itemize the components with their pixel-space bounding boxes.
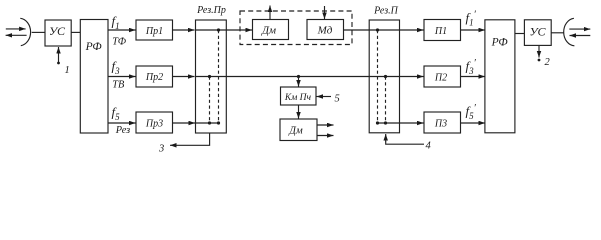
converter Пр3 (136, 112, 173, 133)
junction dot f3 drop (297, 75, 300, 78)
reserve switch Рез.П (369, 6, 399, 133)
modulator Мд (307, 20, 344, 40)
wire Рез.П to П2 (400, 76, 424, 78)
channel equipment dashed box (240, 11, 352, 45)
svg-text:3: 3 (158, 144, 164, 155)
wire УС to antenna (right) (551, 32, 563, 34)
wire П1 to РФ (461, 29, 486, 31)
svg-text:Дм: Дм (288, 126, 303, 137)
wire РФ to УС (right) (515, 33, 525, 35)
svg-text:П3: П3 (434, 118, 447, 129)
svg-text:2: 2 (545, 57, 551, 68)
dashed switch link f3-f5 (209, 77, 211, 124)
svg-text:Мд: Мд (317, 25, 333, 37)
svg-text:Пр1: Пр1 (145, 26, 163, 37)
arrow up from Дм (269, 6, 271, 20)
wire Пр1 to Рез.Пр (173, 29, 195, 31)
arrow input 5 into Км Пч (317, 94, 340, 105)
combiner Км Пч (281, 87, 317, 105)
filter РФ (left) (80, 20, 108, 134)
wire Рез.П to П3 (400, 122, 424, 124)
svg-text:5: 5 (335, 94, 340, 105)
svg-text:ТВ: ТВ (112, 80, 125, 91)
svg-text:Пр3: Пр3 (145, 118, 163, 129)
svg-text:УС: УС (49, 24, 66, 38)
reserve switch Рез.Пр (196, 5, 227, 133)
converter Пр1 (136, 20, 173, 40)
svg-text:4: 4 (426, 141, 432, 152)
transmitter П2 (424, 66, 461, 87)
wire row f1 through Рез.Пр (196, 29, 227, 31)
wire Пр2 to Рез.Пр (173, 76, 195, 78)
svg-text:П1: П1 (434, 26, 447, 37)
arrow output 2 from УС (538, 45, 551, 68)
wire antenna to УС (32, 31, 46, 33)
wire РФ to Пр3 (108, 122, 136, 124)
svg-text:Рез: Рез (115, 125, 130, 136)
transmitter П1 (424, 20, 461, 41)
wire П2 to РФ (461, 76, 486, 78)
svg-text:Км Пч: Км Пч (284, 93, 312, 103)
wire input 4 into Рез.П bottom (386, 134, 432, 152)
dashed switch link f1'-f5' (377, 30, 379, 123)
transmitter П3 (424, 112, 461, 133)
svg-text:РФ: РФ (85, 41, 102, 53)
arrow input 1 into УС (57, 47, 70, 76)
svg-text:УС: УС (529, 25, 546, 39)
svg-text:Пр2: Пр2 (145, 72, 163, 83)
wire f3 Рез.Пр to Рез.П (226, 76, 369, 78)
filter РФ (right) (485, 20, 515, 133)
wire П3 to РФ (461, 122, 486, 124)
wire Рез.П to П1 (400, 29, 424, 31)
wire row f1' through Рез.П (369, 29, 399, 31)
left antenna (6, 18, 31, 45)
svg-text:Дм: Дм (261, 25, 276, 37)
wire Мд to Рез.П (344, 29, 370, 31)
wire РФ to Пр1 (108, 29, 136, 31)
arrow down into Мд (324, 6, 326, 19)
svg-text:РФ: РФ (491, 37, 508, 49)
demodulator Дм (lower) (280, 119, 317, 141)
wire УС to РФ (71, 31, 80, 33)
wire РФ to Пр2 (108, 76, 136, 78)
junction dots in Рез.Пр (208, 28, 220, 124)
svg-text:1: 1 (65, 65, 70, 76)
right antenna (564, 18, 591, 46)
svg-text:П2: П2 (434, 72, 447, 83)
amplifier УС (right) (524, 20, 551, 46)
svg-text:Рез.Пр: Рез.Пр (196, 5, 226, 16)
wire row f3' through Рез.П (369, 76, 399, 78)
demodulator Дм (253, 20, 289, 40)
wire Пр3 to Рез.Пр (173, 122, 196, 124)
dashed switch link f3'-f5' (385, 77, 387, 124)
wire Км Пч to Дм (298, 105, 300, 119)
svg-text:ТФ: ТФ (112, 36, 126, 47)
wire row f3 through Рез.Пр (196, 76, 227, 78)
wire Рез.Пр to Дм (226, 29, 252, 31)
converter Пр2 (136, 66, 173, 87)
wire Рез.Пр bottom output 3 (158, 133, 210, 155)
svg-text:Рез.П: Рез.П (373, 6, 398, 17)
wire drop to Км Пч (298, 77, 300, 87)
dashed switch link f1-f5 (218, 30, 220, 123)
wire row f5' inside Рез.П (378, 122, 400, 124)
wire row f5 inside Рез.Пр (196, 122, 219, 124)
amplifier УС (left) (45, 20, 71, 46)
junction dots in Рез.П (376, 28, 387, 124)
output arrows from Дм lower (317, 125, 334, 136)
